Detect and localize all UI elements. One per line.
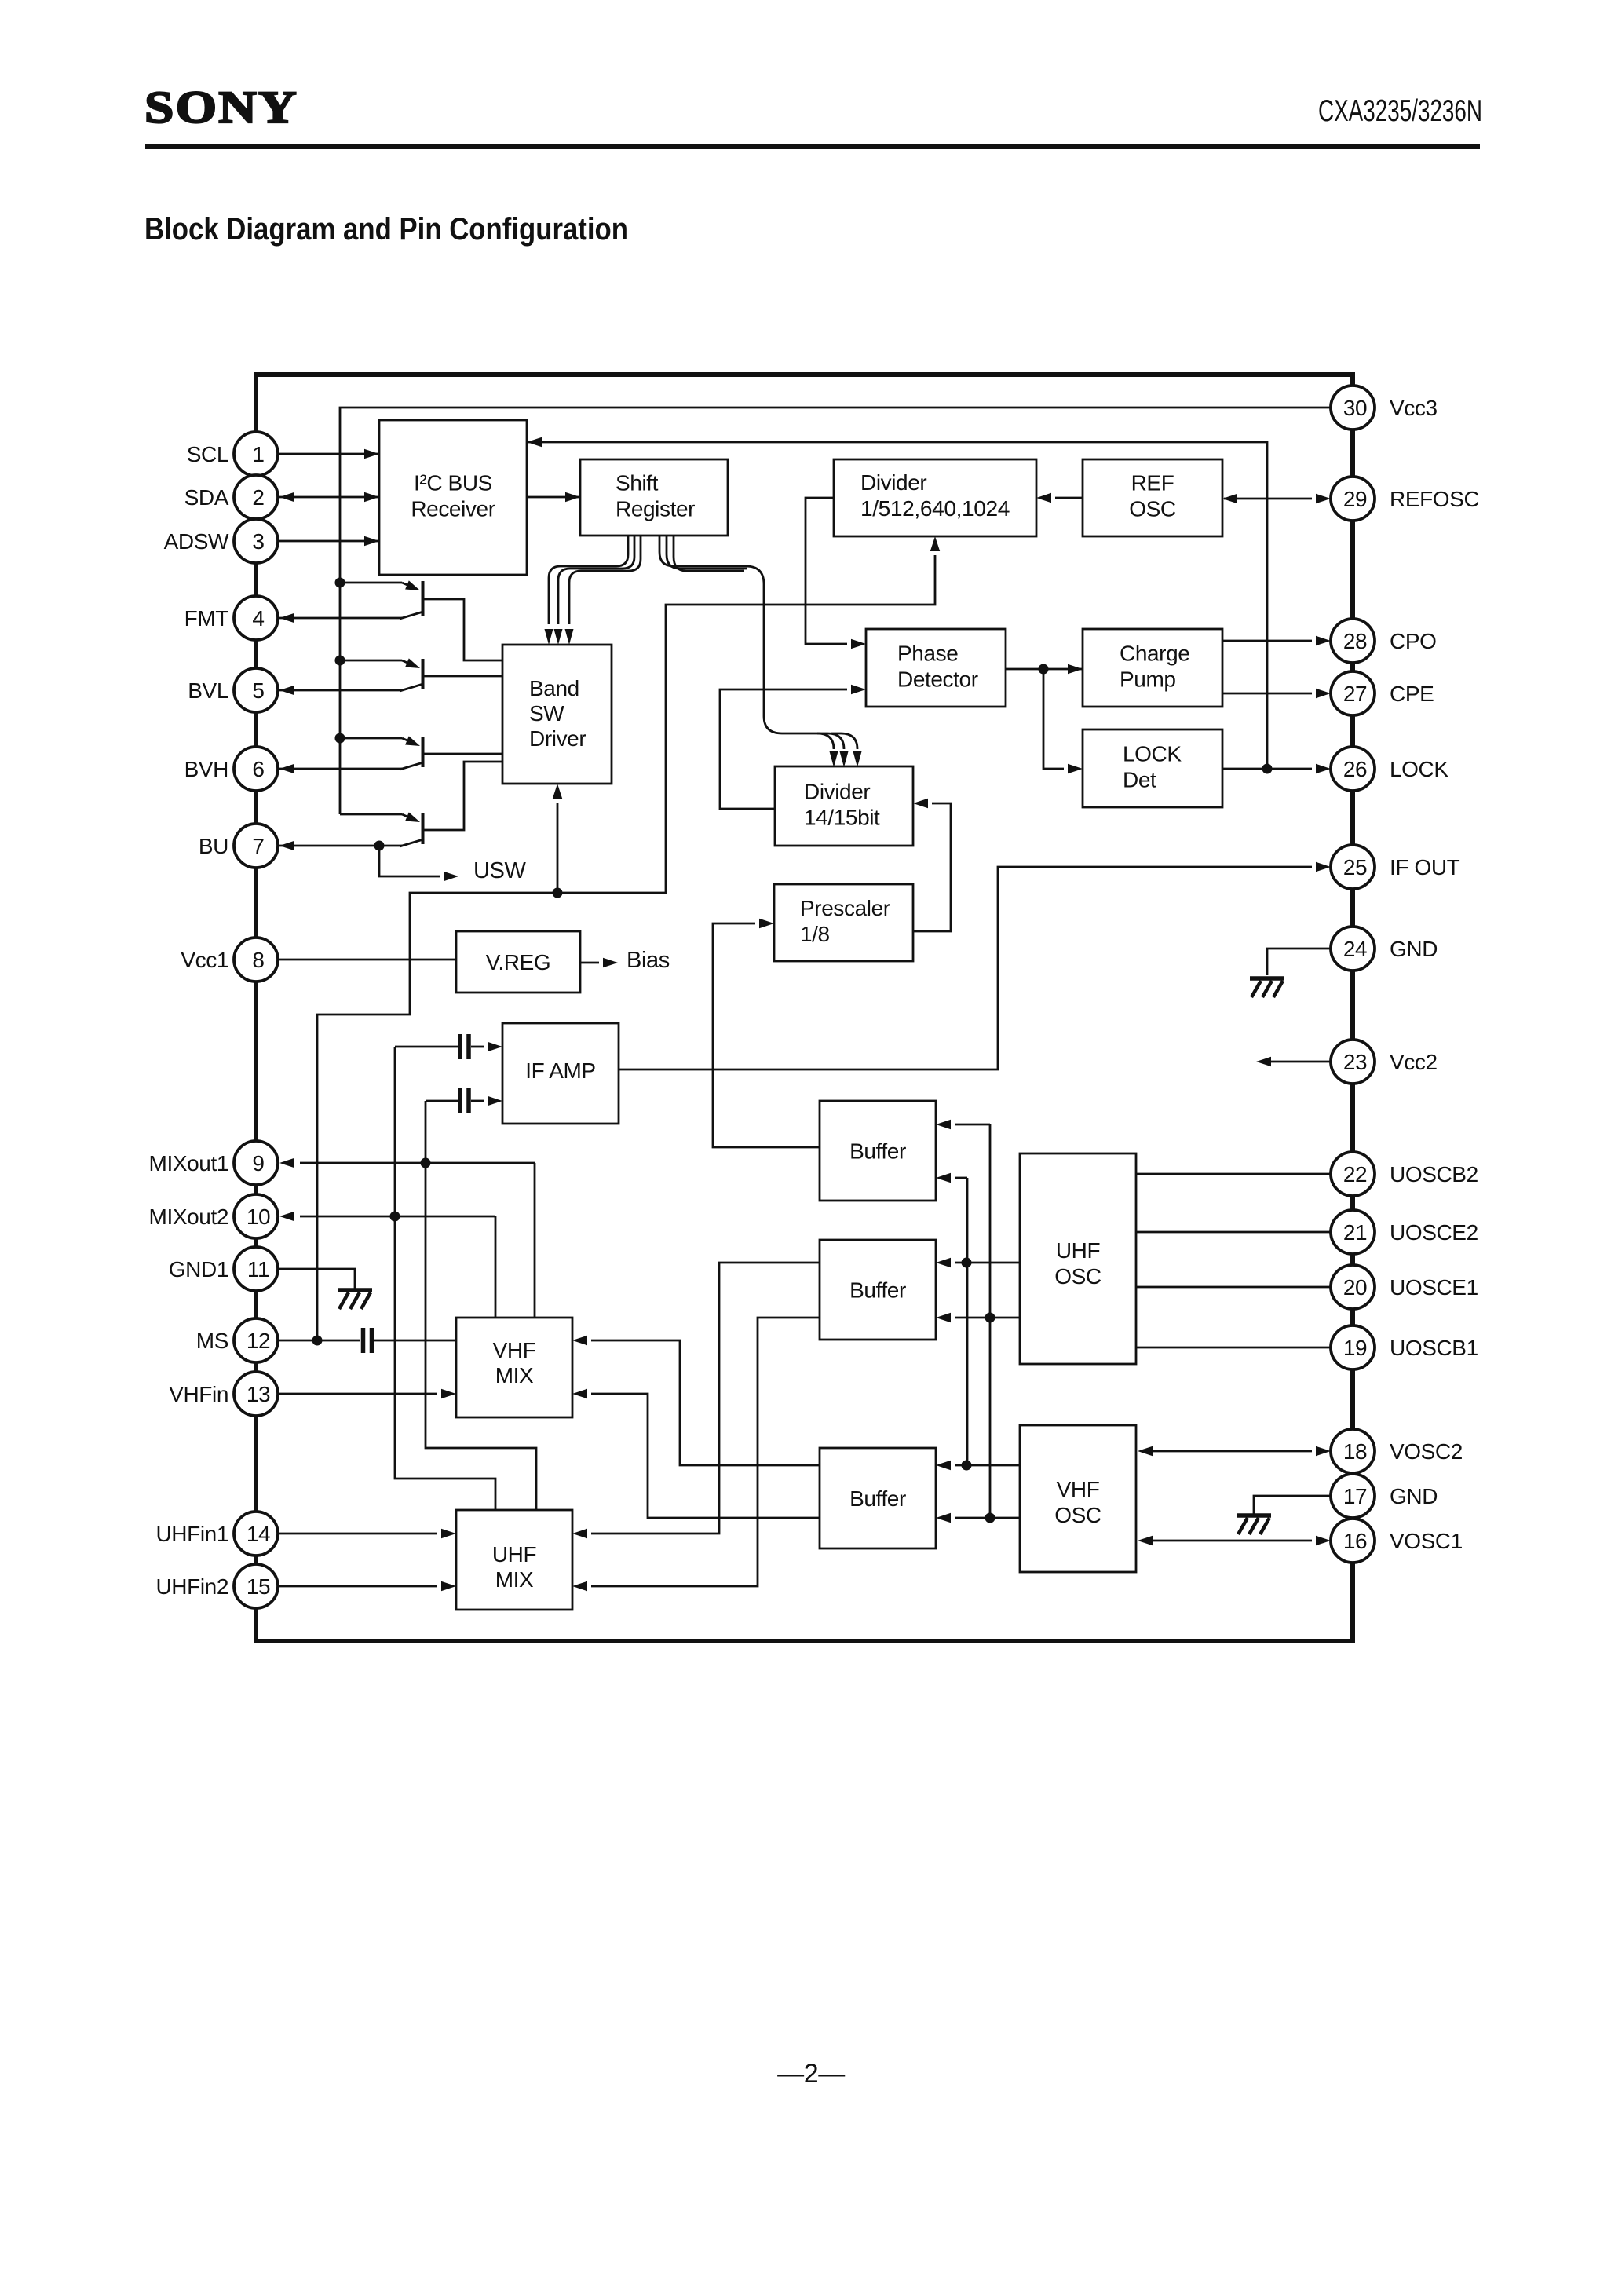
svg-text:6: 6 bbox=[252, 757, 264, 781]
svg-text:14: 14 bbox=[247, 1522, 270, 1546]
svg-text:2: 2 bbox=[252, 485, 264, 510]
svg-text:OSC: OSC bbox=[1129, 497, 1176, 521]
svg-text:Bias: Bias bbox=[627, 948, 670, 973]
svg-text:13: 13 bbox=[247, 1382, 270, 1406]
svg-text:GND: GND bbox=[1390, 937, 1438, 961]
svg-text:SCL: SCL bbox=[187, 442, 228, 466]
svg-text:20: 20 bbox=[1343, 1275, 1367, 1300]
svg-text:26: 26 bbox=[1343, 757, 1367, 781]
svg-text:24: 24 bbox=[1343, 937, 1367, 961]
svg-text:1: 1 bbox=[252, 442, 264, 466]
svg-text:GND: GND bbox=[1390, 1484, 1438, 1508]
svg-text:Divider: Divider bbox=[804, 780, 870, 804]
svg-text:UHF: UHF bbox=[1056, 1238, 1100, 1263]
svg-text:17: 17 bbox=[1343, 1484, 1367, 1508]
svg-text:—2—: —2— bbox=[777, 2059, 845, 2089]
svg-text:MIX: MIX bbox=[495, 1363, 534, 1387]
svg-text:23: 23 bbox=[1343, 1050, 1367, 1074]
svg-text:7: 7 bbox=[252, 834, 264, 858]
svg-text:4: 4 bbox=[252, 606, 264, 631]
svg-text:IF OUT: IF OUT bbox=[1390, 855, 1460, 879]
svg-text:8: 8 bbox=[252, 948, 264, 972]
svg-text:Charge: Charge bbox=[1120, 642, 1189, 666]
svg-text:LOCK: LOCK bbox=[1123, 742, 1182, 766]
svg-text:CPE: CPE bbox=[1390, 682, 1434, 706]
svg-text:Block Diagram and Pin Configur: Block Diagram and Pin Configuration bbox=[144, 212, 628, 247]
svg-text:Det: Det bbox=[1123, 768, 1156, 792]
svg-text:Phase: Phase bbox=[897, 642, 958, 666]
svg-text:Prescaler: Prescaler bbox=[800, 896, 890, 920]
svg-text:19: 19 bbox=[1343, 1336, 1367, 1360]
svg-text:MIXout1: MIXout1 bbox=[149, 1151, 228, 1175]
svg-text:12: 12 bbox=[247, 1329, 270, 1353]
svg-text:11: 11 bbox=[247, 1257, 269, 1281]
svg-text:REFOSC: REFOSC bbox=[1390, 487, 1479, 511]
svg-text:Buffer: Buffer bbox=[849, 1139, 906, 1164]
svg-text:UOSCB1: UOSCB1 bbox=[1390, 1336, 1478, 1360]
svg-text:OSC: OSC bbox=[1054, 1264, 1101, 1289]
svg-text:V.REG: V.REG bbox=[486, 950, 551, 974]
svg-text:VHF: VHF bbox=[1057, 1477, 1100, 1501]
svg-text:1/8: 1/8 bbox=[800, 922, 830, 946]
svg-text:Driver: Driver bbox=[529, 726, 586, 751]
svg-text:30: 30 bbox=[1343, 396, 1367, 420]
svg-text:ADSW: ADSW bbox=[164, 529, 229, 554]
svg-text:28: 28 bbox=[1343, 629, 1367, 653]
svg-text:Vcc1: Vcc1 bbox=[181, 948, 228, 972]
svg-text:MS: MS bbox=[196, 1329, 228, 1353]
svg-text:SONY: SONY bbox=[144, 82, 298, 133]
svg-text:10: 10 bbox=[247, 1205, 270, 1229]
svg-text:15: 15 bbox=[247, 1574, 270, 1599]
svg-text:MIXout2: MIXout2 bbox=[149, 1205, 228, 1229]
svg-text:UOSCE2: UOSCE2 bbox=[1390, 1220, 1478, 1245]
svg-text:MIX: MIX bbox=[495, 1567, 534, 1592]
svg-text:Buffer: Buffer bbox=[849, 1486, 906, 1511]
svg-text:14/15bit: 14/15bit bbox=[804, 806, 880, 830]
svg-text:VHFin: VHFin bbox=[169, 1382, 228, 1406]
svg-text:27: 27 bbox=[1343, 682, 1367, 706]
svg-text:FMT: FMT bbox=[184, 606, 229, 631]
svg-text:VOSC1: VOSC1 bbox=[1390, 1529, 1463, 1553]
svg-text:21: 21 bbox=[1343, 1220, 1367, 1245]
svg-text:LOCK: LOCK bbox=[1390, 757, 1448, 781]
svg-text:Shift: Shift bbox=[616, 471, 659, 495]
svg-text:5: 5 bbox=[252, 678, 264, 703]
svg-text:SDA: SDA bbox=[184, 485, 229, 510]
svg-text:CXA3235/3236N: CXA3235/3236N bbox=[1318, 94, 1482, 128]
svg-text:1/512,640,1024: 1/512,640,1024 bbox=[860, 496, 1010, 521]
svg-text:GND1: GND1 bbox=[169, 1257, 228, 1281]
svg-text:UHFin2: UHFin2 bbox=[155, 1574, 228, 1599]
svg-text:VOSC2: VOSC2 bbox=[1390, 1439, 1463, 1464]
svg-text:Divider: Divider bbox=[860, 470, 926, 495]
svg-text:UOSCE1: UOSCE1 bbox=[1390, 1275, 1478, 1300]
svg-text:SW: SW bbox=[529, 701, 564, 726]
svg-text:Band: Band bbox=[529, 676, 579, 700]
svg-text:22: 22 bbox=[1343, 1162, 1367, 1186]
svg-text:Vcc3: Vcc3 bbox=[1390, 396, 1438, 420]
svg-text:Receiver: Receiver bbox=[411, 497, 495, 521]
svg-text:18: 18 bbox=[1343, 1439, 1367, 1464]
svg-text:29: 29 bbox=[1343, 487, 1367, 511]
svg-text:25: 25 bbox=[1343, 855, 1367, 879]
svg-text:VHF: VHF bbox=[493, 1338, 536, 1362]
svg-text:CPO: CPO bbox=[1390, 629, 1436, 653]
svg-text:USW: USW bbox=[473, 858, 526, 883]
svg-text:OSC: OSC bbox=[1054, 1503, 1101, 1527]
svg-text:UHF: UHF bbox=[492, 1542, 536, 1567]
svg-text:Pump: Pump bbox=[1120, 667, 1176, 692]
svg-text:BVL: BVL bbox=[188, 678, 228, 703]
svg-text:I²C BUS: I²C BUS bbox=[414, 471, 492, 495]
svg-text:Detector: Detector bbox=[897, 667, 978, 692]
svg-text:REF: REF bbox=[1131, 471, 1174, 495]
svg-text:3: 3 bbox=[252, 529, 264, 554]
svg-text:9: 9 bbox=[252, 1151, 264, 1175]
svg-text:BU: BU bbox=[199, 834, 228, 858]
svg-text:UHFin1: UHFin1 bbox=[155, 1522, 228, 1546]
svg-text:IF AMP: IF AMP bbox=[525, 1058, 595, 1083]
svg-text:16: 16 bbox=[1343, 1529, 1367, 1553]
svg-text:UOSCB2: UOSCB2 bbox=[1390, 1162, 1478, 1186]
svg-text:Register: Register bbox=[616, 497, 695, 521]
svg-text:Buffer: Buffer bbox=[849, 1278, 906, 1303]
svg-text:BVH: BVH bbox=[184, 757, 228, 781]
svg-text:Vcc2: Vcc2 bbox=[1390, 1050, 1438, 1074]
